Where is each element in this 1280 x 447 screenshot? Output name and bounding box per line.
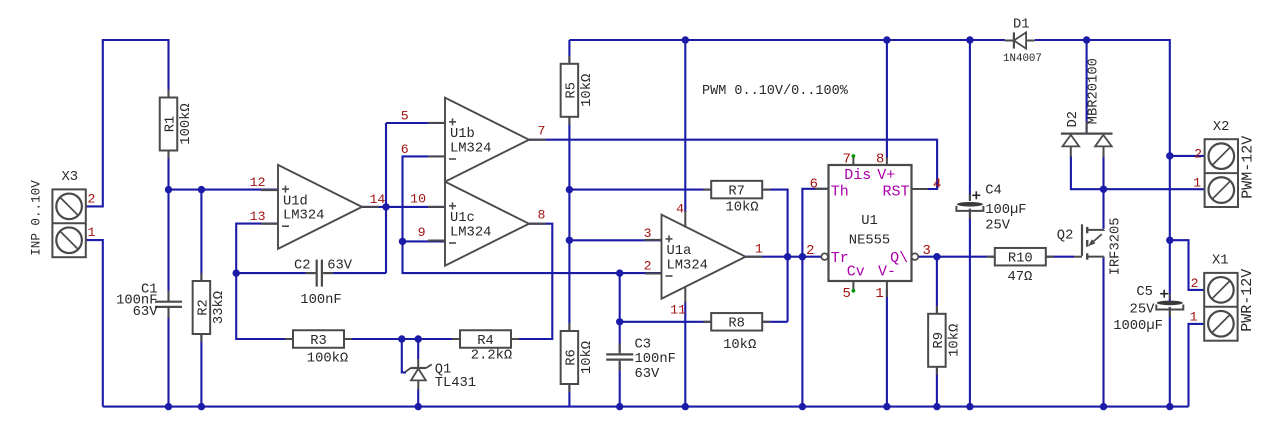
svg-text:X2: X2 [1213,120,1230,135]
wire C1 bottom to ground bus [167,307,169,406]
svg-text:1000µF: 1000µF [1113,319,1163,334]
junction Q2 source ground [1100,403,1107,410]
label D1 value [1003,53,1042,65]
op-amp U1d [261,165,379,249]
wire R5 bottom to R6 top (divider node) [568,116,570,332]
junction U1a V+ bus tap [682,36,689,43]
label D2 value [1087,58,1102,124]
label C1 voltage [133,305,159,320]
wire ground bus (bottom rail) [103,406,1189,408]
label C1 [141,283,158,298]
svg-text:U1b: U1b [450,126,475,142]
label PWM 0..10V/0..100% [702,84,849,99]
pin number X3-1 [88,225,96,240]
junction R2 ground [198,403,205,410]
timer U1 NE555 [815,157,928,297]
junction U1a pin 3 divider tap [566,237,573,244]
junction R7/R8 output node [784,253,791,260]
svg-text:LM324: LM324 [667,259,708,274]
svg-text:1: 1 [1193,176,1201,191]
svg-text:100kΩ: 100kΩ [178,103,194,144]
label C3 value [635,352,676,367]
wire divider node to R7 left [569,189,711,191]
svg-text:1N4007: 1N4007 [1003,53,1042,65]
wire vertical A to U1b pin 5 [386,122,445,124]
pin name Tr [831,250,849,267]
wire C3 node to R8 left [620,321,712,323]
wire U1d pin 13 to R3 left (feedback node) [236,224,293,339]
polarity mark C4 [972,191,980,199]
svg-text:10kΩ: 10kΩ [579,341,595,374]
wire +12V top bus right of D1 down right side [1035,40,1170,301]
diode D1 1N4007 [1005,32,1035,48]
wire +12V bus to U1a pin 4 [684,40,686,212]
op-amp U1c [428,182,546,266]
pin number U1-5 [842,286,850,302]
wire TL431 anode to ground bus [417,389,419,407]
svg-text:100nF: 100nF [300,293,341,308]
wire R9 bottom to ground bus [936,367,938,407]
wire +12V to X2 pin 2 [1170,155,1205,157]
wire +12V bus to D2 cathode [1086,40,1088,133]
svg-text:IRF3205: IRF3205 [1108,217,1123,275]
wire R1 bottom to node A [167,150,169,190]
svg-text:R3: R3 [310,334,327,349]
junction C4 bus tap [966,36,973,43]
svg-text:R8: R8 [728,317,745,332]
svg-text:C3: C3 [635,338,652,353]
label PWM-12V [1240,136,1257,199]
pin number U1b-6 [401,142,409,157]
pin name V+ [877,167,895,184]
wire node A to C1 top [167,190,169,302]
label Q2 value [1108,217,1123,275]
junction R8 tap [616,318,623,325]
capacitor C5 [1156,294,1183,317]
label R10 value [1007,270,1032,285]
junction X2 pin 2 tap [1166,152,1173,159]
junction U1a V- ground [682,403,689,410]
svg-text:2: 2 [1194,147,1202,162]
svg-text:MBR20100: MBR20100 [1087,58,1102,124]
svg-text:R2: R2 [196,299,211,316]
wire U1d output to U1c pin 10 [362,206,445,208]
junction X1 pin 2 tap [1166,237,1173,244]
label C3 [635,338,652,353]
svg-text:4: 4 [676,201,684,216]
svg-text:9: 9 [418,225,426,240]
pin number U1c-9 [418,225,426,240]
wire TL431 cathode branch [417,339,419,359]
wire C3 bottom to ground bus [619,362,621,407]
junction Q output / R9 tap [933,253,940,260]
wire output node to X2 pin 1 [1104,188,1206,190]
svg-text:X1: X1 [1212,254,1229,269]
svg-text:R4: R4 [477,334,494,349]
pin number U1-6 [810,176,818,192]
svg-text:PWM-12V: PWM-12V [1240,136,1257,199]
pin number U1-8 [876,152,884,168]
pin number U1-2 [806,243,814,259]
svg-text:R10: R10 [1008,252,1033,267]
svg-text:2: 2 [88,192,96,207]
junction C5 ground [1166,403,1173,410]
polarity mark C5 [1160,290,1168,298]
resistor R5 [561,56,595,125]
svg-text:U1c: U1c [450,211,475,226]
capacitor C3 [606,343,633,370]
wire R7 right to U1a output node [762,190,787,322]
label D2 [1066,111,1081,128]
svg-text:5: 5 [401,109,409,124]
svg-text:Th: Th [831,183,849,200]
junction C3 top node [616,269,623,276]
pin number U1a-3 [644,226,652,241]
junction C1 ground [165,403,172,410]
svg-text:3: 3 [644,226,652,241]
svg-text:10kΩ: 10kΩ [946,324,962,357]
junction C2 feedback tap [233,269,240,276]
pin name Q\ [890,250,908,267]
transistor Q2 IRF3205 [1074,224,1104,259]
capacitor C4 [956,194,983,219]
svg-text:TL431: TL431 [435,376,476,391]
wire R10 right to Q2 gate [1046,256,1074,258]
op-amp U1b [428,98,546,182]
junction TL431 ground [415,403,422,410]
resistor R1 [160,90,194,159]
label D1 [1013,17,1030,32]
label C4 value [985,203,1026,218]
pin number U1d-13 [250,209,266,224]
junction C3 ground [616,403,623,410]
wire X3 pin 2 to R1 via top-left corner [86,40,169,206]
svg-text:NE555: NE555 [849,234,890,249]
wire R8 right to output vertical [762,321,787,323]
label C2 voltage [327,259,353,274]
svg-text:C2: C2 [294,259,311,274]
wire C4 bottom to ground bus [969,209,971,407]
label C2 value [300,293,341,308]
pin number X1-2 [1191,276,1199,291]
svg-text:100µF: 100µF [985,203,1026,218]
wire R5 top to +12V bus [568,40,570,65]
junction TL431 ref tap [398,335,405,342]
label Q1 [435,362,452,377]
svg-text:Cv: Cv [847,264,865,281]
svg-text:11: 11 [670,303,686,318]
svg-text:2.2kΩ: 2.2kΩ [471,348,512,364]
svg-text:Q2: Q2 [1057,229,1074,244]
svg-text:63V: 63V [133,305,159,320]
pin number U1-1 [875,286,883,302]
svg-text:D2: D2 [1066,111,1081,128]
resistor R6 [561,323,595,392]
junction C4 ground [966,403,973,410]
label R8 value [723,337,756,353]
resistor R10 [987,248,1054,267]
pin number U1c-8 [537,208,545,223]
svg-text:INP 0..10V: INP 0..10V [30,180,44,256]
svg-text:63V: 63V [635,367,661,382]
label Q2 [1057,229,1074,244]
wire +12V top bus left of D1 [569,39,1005,41]
wire Q2 source to ground bus [1102,258,1104,407]
svg-text:U1d: U1d [283,193,308,209]
wire TL431 reference branch [402,339,406,372]
svg-text:25V: 25V [985,219,1011,234]
svg-text:1: 1 [755,242,763,257]
pin number U1c-10 [410,191,426,206]
pin number U1-3 [923,243,931,259]
capacitor C2 [306,260,333,287]
connector X2 [1205,120,1238,207]
wire NE555 pin 1 V- to ground bus [886,289,888,407]
svg-text:13: 13 [250,209,266,224]
wire NE555 pin 8 V+ to +12V bus [886,40,888,158]
label U1 [861,214,878,229]
wire R4 right to U1c output [511,224,552,339]
svg-text:V-: V- [878,264,896,281]
wire X1 pin 1 to ground bus [1189,324,1205,407]
wire R2 bottom to ground bus [200,333,202,407]
svg-text:LM324: LM324 [450,142,491,157]
junction Tr ground [799,403,806,410]
wire U1c pin 9 branch [403,240,446,242]
pin number U1d-14 [370,192,386,207]
pin number U1a-4 [676,201,684,216]
svg-text:2: 2 [644,259,652,274]
svg-text:C4: C4 [985,184,1002,199]
svg-text:R5: R5 [564,82,579,99]
svg-text:X3: X3 [62,170,79,185]
label C1 value [116,293,157,308]
svg-text:10kΩ: 10kΩ [723,337,756,353]
wire D2 left anode to output node [1071,156,1104,189]
capacitor C1 [155,291,182,318]
svg-text:U1: U1 [861,214,878,229]
label C4 voltage [985,219,1011,234]
resistor R9 [928,306,962,375]
shunt regulator Q1 TL431 [405,359,431,390]
pin number U1a-2 [644,259,652,274]
pin name RST [882,183,909,200]
unconnected pin marker Dis [852,154,856,158]
label PWR-12V [1239,269,1256,332]
op-amp U1a [645,215,763,299]
svg-text:14: 14 [370,192,386,207]
junction NE555 V- ground [883,403,890,410]
pin number U1b-5 [401,109,409,124]
pin number U1d-12 [250,175,266,190]
svg-text:1: 1 [875,286,883,302]
svg-text:8: 8 [876,152,884,168]
label C4 [985,184,1002,199]
svg-text:V+: V+ [877,167,895,184]
junction Th-Tr tie [799,253,806,260]
svg-text:R6: R6 [564,349,579,366]
svg-text:4: 4 [933,176,941,192]
svg-text:PWR-12V: PWR-12V [1239,269,1256,332]
wire R6 bottom to ground bus [568,384,570,407]
label C3 voltage [635,367,661,382]
svg-text:5: 5 [842,286,850,302]
svg-text:10kΩ: 10kΩ [725,199,758,215]
wire Tr node vertical to ground bus [801,257,803,407]
pin number U1-7 [843,152,851,168]
wire D2 right anode to Q2 drain [1102,156,1104,229]
junction R7 divider tap [566,186,573,193]
junction U1d output node [382,203,389,210]
svg-text:10: 10 [410,191,426,206]
svg-text:100kΩ: 100kΩ [307,350,348,366]
wire U1b pin 6 / U1c pin 9 / C3 / U1a pin 2 net [403,156,662,273]
label C2 [294,259,311,274]
svg-text:LM324: LM324 [283,209,324,224]
svg-text:2: 2 [1191,276,1199,291]
pin name V- [878,264,896,281]
wire U1a output to NE555 Tr [746,256,822,258]
wire X3 pin 1 to ground bus [86,240,103,407]
dual diode D2 MBR20100 [1061,122,1113,158]
pin number U1a-1 [755,242,763,257]
wire C3 top branch [619,273,621,352]
svg-text:3: 3 [923,243,931,259]
op-amp U1a power pins [684,211,686,304]
svg-text:LM324: LM324 [450,226,491,241]
pin number U1a-11 [670,303,686,318]
svg-text:Dis: Dis [844,167,871,184]
svg-text:1: 1 [88,225,96,240]
label INP 0..10V [30,180,44,256]
unconnected pin marker Cv [852,289,856,293]
junction D2 bus tap [1083,36,1090,43]
wire NE555 Th to Tr node [802,189,828,257]
wire U1d output vertical (to U1b pin 5 and C2) [385,123,387,273]
svg-text:10kΩ: 10kΩ [579,74,595,107]
svg-text:33kΩ: 33kΩ [211,291,227,324]
pin number X2-1 [1193,176,1201,191]
label R3 value [307,350,348,366]
wire C5 bottom to ground bus [1169,307,1171,407]
resistor R8 [703,313,770,332]
connector X3 [52,170,85,257]
pin number X1-1 [1190,310,1198,325]
resistor R2 [193,273,227,342]
wire node A to U1d pin 12 [169,189,279,191]
svg-text:12: 12 [250,175,266,190]
wire Q out node to R9 top [936,257,938,315]
svg-text:7: 7 [537,124,545,139]
junction node A / R2 tap [198,186,205,193]
svg-text:7: 7 [843,152,851,168]
svg-text:100nF: 100nF [635,352,676,367]
junction R9 ground [933,403,940,410]
wire feedback node to C2 left plate [236,272,314,274]
label C5 [1136,285,1153,300]
wire C2 right plate to U1d output node [324,272,386,274]
resistor R7 [703,181,770,200]
pin number U1-4 [933,176,941,192]
connector X1 [1204,254,1237,341]
label NE555 [849,234,890,249]
pin number X3-2 [88,192,96,207]
svg-text:C5: C5 [1136,285,1153,300]
svg-text:R1: R1 [163,116,178,133]
wire NE555 Q out to R10 left [918,256,995,258]
wire U1b output pin 7 to NE555 RST [529,140,937,189]
junction NE555 V+ bus tap [883,36,890,43]
pin name Th [831,183,849,200]
pin name Cv [847,264,865,281]
wire divider node to U1a pin 3 [569,239,661,241]
label C5 voltage [1130,303,1156,318]
svg-text:8: 8 [537,208,545,223]
svg-text:47Ω: 47Ω [1007,270,1032,285]
junction D2 anodes / Q2 drain [1100,186,1107,193]
wire node A to R2 top [200,190,202,282]
wire U1a pin 11 to ground bus [684,302,686,407]
wire +12V to X1 pin 2 [1170,240,1204,290]
junction TL431 cathode tap [415,335,422,342]
pin number U1b-7 [537,124,545,139]
wire +12V bus to C4 top [969,40,971,201]
svg-text:RST: RST [882,183,909,200]
svg-text:25V: 25V [1130,303,1156,318]
pin number X2-2 [1194,147,1202,162]
label Q1 value [435,376,476,391]
svg-text:1: 1 [1190,310,1198,325]
svg-text:R9: R9 [932,332,947,349]
label C5 value [1113,319,1163,334]
resistor R3 [285,330,352,349]
pin name Dis [844,167,871,184]
svg-text:U1a: U1a [667,244,692,259]
svg-text:6: 6 [810,176,818,192]
svg-text:PWM 0..10V/0..100%: PWM 0..10V/0..100% [702,84,849,99]
junction node A / R1-R2 [165,186,172,193]
resistor R4 [452,330,519,349]
svg-text:63V: 63V [327,259,353,274]
svg-text:6: 6 [401,142,409,157]
wire R3 right to R4 left via TL431 taps [344,338,460,340]
junction U1c pin 9 tap [399,238,406,245]
label R7 value [725,199,758,215]
label R4 value [471,348,512,364]
svg-text:2: 2 [806,243,814,259]
svg-text:D1: D1 [1013,17,1030,32]
svg-text:R7: R7 [728,185,745,200]
